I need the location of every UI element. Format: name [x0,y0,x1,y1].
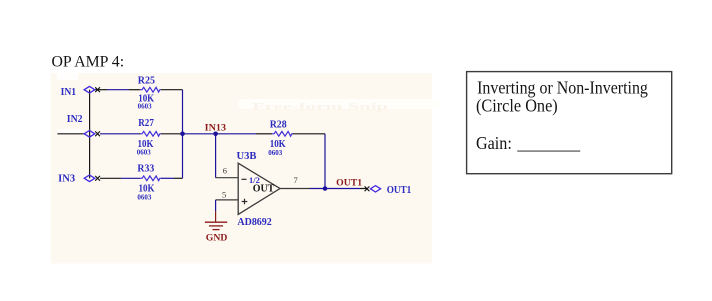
svg-text:OP AMP 4:: OP AMP 4: [52,54,125,71]
svg-text:Inverting or Non-Inverting: Inverting or Non-Inverting [477,77,648,97]
svg-text:Gain:: Gain: [476,133,512,153]
svg-text:R25: R25 [138,75,155,86]
svg-text:6: 6 [223,166,227,176]
svg-text:(Circle One): (Circle One) [476,96,558,116]
svg-text:OUT: OUT [253,184,275,195]
svg-text:R27: R27 [138,118,154,129]
svg-text:Free-form Snip: Free-form Snip [252,103,388,113]
svg-text:OUT1: OUT1 [387,184,412,196]
svg-text:GND: GND [206,232,228,243]
svg-text:IN2: IN2 [67,114,83,125]
svg-text:0603: 0603 [138,101,152,110]
svg-text:U3B: U3B [237,151,257,162]
svg-text:5: 5 [222,190,226,200]
svg-text:________: ________ [517,133,581,153]
svg-text:R28: R28 [270,120,287,131]
svg-text:0603: 0603 [137,193,151,202]
svg-text:AD8692: AD8692 [237,217,271,228]
svg-text:7: 7 [294,175,298,185]
svg-text:R33: R33 [137,164,154,175]
svg-text:OUT1: OUT1 [336,178,362,188]
svg-text:IN1: IN1 [61,87,77,98]
svg-text:0603: 0603 [137,147,151,156]
svg-text:IN3: IN3 [58,173,75,184]
svg-text:IN13: IN13 [205,124,227,134]
svg-text:0603: 0603 [268,148,282,157]
